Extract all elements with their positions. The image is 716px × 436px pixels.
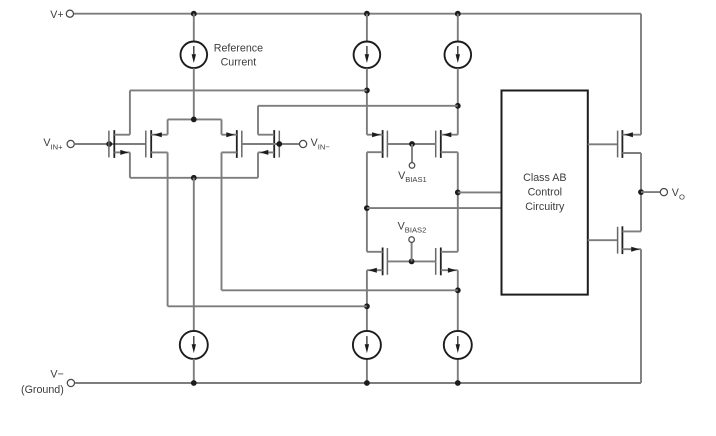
svg-text:Circuitry: Circuitry <box>525 201 565 213</box>
wire node B to class AB box <box>458 191 502 193</box>
node: M1 gate junction <box>106 141 112 147</box>
wire current source I5 to V- rail <box>457 359 459 383</box>
svg-text:V−: V− <box>50 369 63 381</box>
wire V+ rail to current source I2 <box>457 14 459 42</box>
wire P-pair common sources <box>168 118 222 120</box>
node B: I2 output / M4 drain junction <box>455 103 461 109</box>
wire VBIAS1 stub <box>411 144 413 163</box>
wire VBIAS1 gate bus M5-M6 <box>387 143 435 145</box>
transistor M7 (cascode NMOS, left) <box>383 248 388 276</box>
M6 drain lead <box>441 151 458 153</box>
svg-text:Class AB: Class AB <box>523 172 566 184</box>
node: V- junction at I4 column <box>364 380 370 386</box>
node: VBIAS2 junction <box>409 259 415 265</box>
V- terminal <box>67 379 74 386</box>
svg-text:V+: V+ <box>50 9 63 21</box>
M2 source lead with arrow <box>151 134 167 136</box>
wire M2 drain down to summing node D <box>167 152 169 306</box>
wire node A to class AB box <box>367 207 502 209</box>
wire current source I4 to V- rail <box>366 359 368 383</box>
wire M8 source down to current source I5 <box>457 270 459 331</box>
wire M1 drain to node A <box>130 89 367 91</box>
node: M4 gate junction <box>276 141 282 147</box>
node: N-pair tail <box>191 175 197 181</box>
transistor M1 (input NMOS, left outer) <box>109 130 114 158</box>
transistor M6 (cascode PMOS, right) <box>436 130 441 158</box>
node: M7 source / M2 drain junction <box>364 303 370 309</box>
wire M7 source down to current source I4 <box>366 270 368 331</box>
M3 drain lead <box>222 151 237 153</box>
transistor M8 (cascode NMOS, right) <box>436 248 441 276</box>
node: rail junction at reference-current column <box>191 11 197 17</box>
current source I5 <box>444 331 472 359</box>
wire V_IN- to M3/M4 gates <box>242 143 300 145</box>
node: rail junction at CS1 column <box>364 11 370 17</box>
QN source lead with arrow <box>622 248 641 250</box>
node: V- junction at I5 column <box>455 380 461 386</box>
wire reference current source to P-pair tail node <box>193 68 195 119</box>
node: output junction <box>638 189 644 195</box>
M1 source lead with arrow <box>114 151 130 153</box>
wire summing node C to M8 column <box>222 289 458 291</box>
M4 source lead with arrow <box>258 151 274 153</box>
V_O terminal <box>660 189 667 196</box>
current source I2 <box>445 42 472 69</box>
node: M5 drain / class-AB sense <box>364 205 370 211</box>
node: V- junction at tail column <box>191 380 197 386</box>
V- (Ground) rail <box>75 382 641 384</box>
M2 drain lead <box>151 151 167 153</box>
node: rail junction at CS2 column <box>455 11 461 17</box>
svg-text:Reference: Reference <box>214 43 263 55</box>
current source I-REF (reference current) <box>181 42 208 69</box>
wire VBIAS2 gate bus M7-M8 <box>387 260 435 262</box>
V_BIAS1 terminal <box>409 163 415 169</box>
svg-text:(Ground): (Ground) <box>21 384 64 396</box>
wire QN source down to V- rail <box>640 249 642 383</box>
M3 source lead with arrow <box>222 134 237 136</box>
transistor QP (output PMOS) <box>618 130 623 158</box>
wire VBIAS2 stub <box>411 242 413 261</box>
wire I2 to cascode node B <box>457 68 459 135</box>
wire summing node D to M7 column <box>168 305 367 307</box>
V_BIAS2 terminal <box>409 237 415 243</box>
current source I3 (tail) <box>180 331 208 359</box>
wire QP drain to output node <box>640 153 642 192</box>
V+ rail <box>74 13 641 15</box>
transistor M5 (cascode PMOS, left) <box>383 130 388 158</box>
svg-text:Current: Current <box>221 57 257 69</box>
QP source lead with arrow <box>622 134 641 136</box>
wire M3 drain down to summing node C <box>221 152 223 290</box>
current source I1 <box>354 42 381 69</box>
M6 source lead with arrow <box>441 134 458 136</box>
wire V+ rail to reference current source <box>193 14 195 42</box>
wire V_IN+ to M1/M2 gates <box>74 143 145 145</box>
transistor M2 (input PMOS, left inner) <box>146 130 151 158</box>
QN drain lead <box>622 230 641 232</box>
M7 source lead with arrow <box>367 269 383 271</box>
V_IN- terminal <box>300 140 307 147</box>
node: M8 source / M3 drain junction <box>455 287 461 293</box>
node: M6 drain / class-AB sense <box>455 190 461 196</box>
M1 drain lead <box>114 134 130 136</box>
wire M5 drain down to M7 <box>366 152 368 252</box>
M4 drain lead <box>258 134 274 136</box>
QP drain lead <box>622 152 641 154</box>
M8 source lead with arrow <box>441 269 458 271</box>
V_IN+ terminal <box>67 140 74 147</box>
wire M3 source up to P-tail wire <box>221 119 223 134</box>
node A: I1 output / M1 drain junction <box>364 88 370 94</box>
M8 drain lead <box>441 251 458 253</box>
wire M1 source down to tail <box>129 152 131 177</box>
block U1: Class AB Control Circuitry <box>502 91 588 295</box>
transistor QN (output NMOS) <box>618 226 623 254</box>
wire I3 to V- rail <box>193 359 195 383</box>
wire M4 source down to tail <box>257 152 259 177</box>
wire V+ rail down to QP source <box>640 14 642 135</box>
wire class AB box to QN gate <box>588 239 618 241</box>
wire QN drain to output node <box>640 192 642 231</box>
wire class AB box to QP gate <box>588 143 618 145</box>
wire tail node to current source I3 <box>193 178 195 331</box>
current source I4 <box>353 331 381 359</box>
transistor M3 (input PMOS, right inner) <box>237 130 242 158</box>
wire M6 drain down to M8 <box>457 152 459 252</box>
wire M4 drain to node B <box>258 105 458 107</box>
node: VBIAS1 junction <box>409 141 415 147</box>
M7 drain lead <box>367 251 383 253</box>
node: P-pair tail <box>191 117 197 123</box>
M5 source lead with arrow <box>367 134 383 136</box>
transistor M4 (input NMOS, right outer) <box>274 130 279 158</box>
wire M2 source up to P-tail wire <box>167 119 169 134</box>
M5 drain lead <box>367 151 383 153</box>
wire N-pair tail <box>130 177 258 179</box>
wire V+ rail to current source I1 <box>366 14 368 42</box>
wire I1 to cascode node A <box>366 68 368 135</box>
V+ terminal <box>66 10 73 17</box>
wire output node to V_O terminal <box>641 191 660 193</box>
svg-text:Control: Control <box>528 187 562 199</box>
